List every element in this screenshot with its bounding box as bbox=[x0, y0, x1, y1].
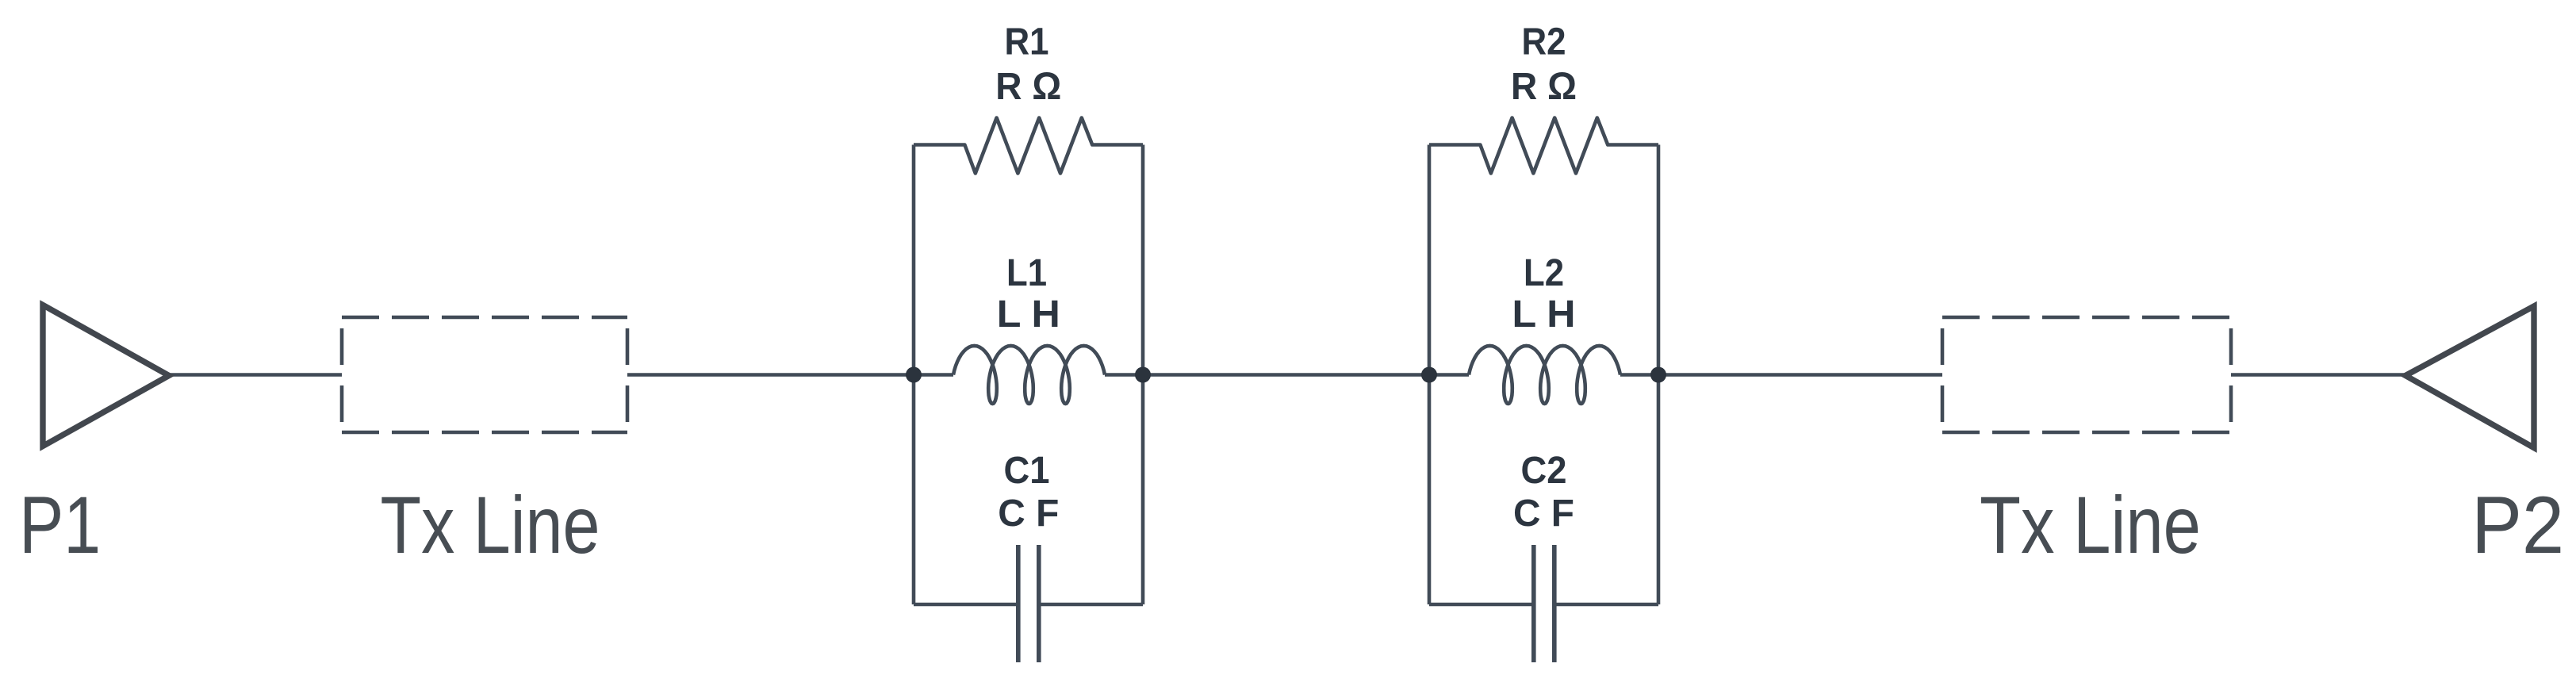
svg-text:L H: L H bbox=[1512, 293, 1576, 336]
svg-text:L H: L H bbox=[997, 293, 1060, 336]
svg-text:R Ω: R Ω bbox=[1511, 66, 1577, 108]
svg-text:R1: R1 bbox=[1005, 21, 1049, 63]
svg-text:C1: C1 bbox=[1004, 450, 1050, 492]
svg-text:L2: L2 bbox=[1524, 252, 1564, 294]
svg-text:C F: C F bbox=[998, 493, 1059, 535]
svg-text:C2: C2 bbox=[1521, 450, 1567, 492]
svg-text:R2: R2 bbox=[1522, 21, 1566, 63]
svg-text:P2: P2 bbox=[2471, 480, 2564, 570]
svg-text:R Ω: R Ω bbox=[995, 66, 1061, 108]
svg-text:L1: L1 bbox=[1006, 252, 1047, 294]
svg-text:C F: C F bbox=[1513, 493, 1574, 535]
svg-text:P1: P1 bbox=[19, 480, 101, 570]
svg-text:Tx Line: Tx Line bbox=[1980, 480, 2201, 570]
svg-text:Tx Line: Tx Line bbox=[381, 480, 600, 570]
